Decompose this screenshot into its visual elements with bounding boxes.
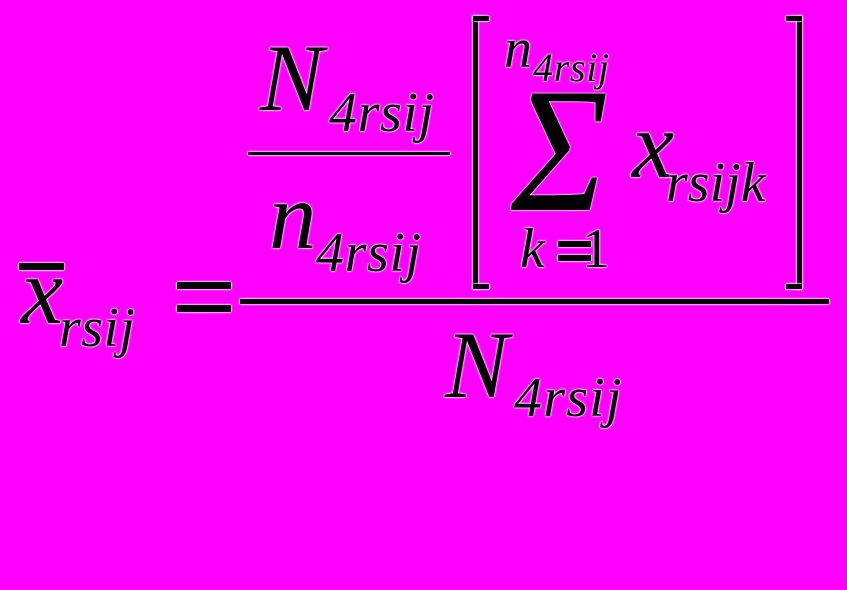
= lower limit bottom bar	[558, 255, 591, 261]
4rsij inner denominator subscript	[316, 252, 422, 254]
right bracket top arm	[786, 16, 802, 21]
right bracket stem	[797, 16, 802, 289]
left bracket stem	[473, 16, 478, 289]
rsij subscript LHS	[59, 327, 135, 329]
n inner denominator	[269, 215, 317, 217]
4rsij denominator subscript	[514, 397, 623, 399]
equals top bar	[177, 282, 231, 289]
main fraction bar	[240, 299, 829, 304]
4rsij numerator subscript	[329, 112, 435, 114]
n upper limit	[504, 48, 532, 50]
rsijk subscript	[666, 182, 766, 184]
x main LHS	[21, 290, 63, 292]
thin fraction bar	[248, 152, 450, 155]
1 lower limit	[582, 248, 610, 250]
N denominator	[445, 364, 508, 366]
left bracket bottom arm	[473, 284, 489, 289]
4rsij upper limit subscript	[533, 67, 610, 69]
N numerator	[260, 77, 323, 79]
x summand	[632, 144, 674, 146]
= lower limit top bar	[558, 241, 591, 247]
right bracket bottom arm	[786, 284, 802, 289]
k lower limit	[520, 248, 545, 250]
overbar of x-bar	[19, 263, 64, 270]
Sigma	[511, 149, 608, 151]
equals bottom bar	[177, 305, 231, 312]
left bracket top arm	[473, 16, 489, 21]
